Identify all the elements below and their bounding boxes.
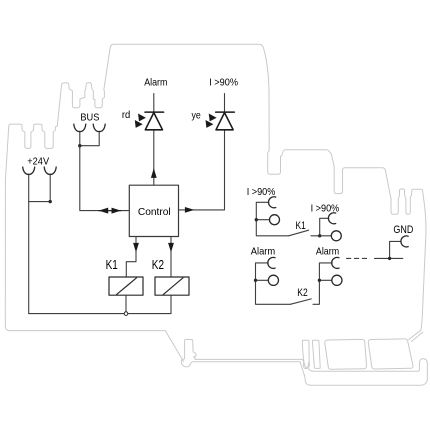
node dot GND bbox=[388, 257, 391, 260]
wire: Control to Alarm LED with up arrow bbox=[153, 130, 155, 185]
svg-text:+24V: +24V bbox=[27, 156, 49, 167]
contact group I>90% left: middle branch bbox=[256, 219, 269, 221]
GND wire bbox=[375, 241, 403, 258]
terminal clamp: +24V right bbox=[44, 167, 56, 174]
frame wires bbox=[311, 218, 332, 236]
control box U1 bbox=[129, 185, 178, 236]
contact socket arc bbox=[332, 257, 339, 268]
wire: Control down to K1 with arrow bbox=[126, 237, 136, 278]
svg-text:K2: K2 bbox=[152, 258, 164, 272]
frame wires bbox=[313, 263, 332, 304]
switch blade K1 bbox=[289, 230, 309, 236]
housing foot: rail bottom bar with end hooks bbox=[300, 359, 427, 386]
node dot bbox=[255, 218, 258, 221]
contact socket arc bbox=[268, 257, 275, 268]
node: open circle junction on rail bbox=[124, 312, 128, 316]
housing foot: latch boot bottom left bbox=[165, 331, 302, 367]
relay coil K1 bbox=[109, 277, 143, 295]
wire: BUS left terminal down bbox=[80, 131, 129, 210]
housing foot: rail segment A bbox=[325, 339, 367, 369]
wire: Control to I>90% LED with right arrow bbox=[179, 130, 225, 210]
relay coil K2 bbox=[155, 277, 189, 295]
LED rd: cathode bar bbox=[145, 111, 164, 113]
contact circle bbox=[331, 231, 341, 241]
svg-text:ye: ye bbox=[192, 110, 202, 121]
wire: +24V right terminal drop bbox=[29, 174, 51, 201]
svg-text:Alarm: Alarm bbox=[144, 77, 167, 88]
svg-text:rd: rd bbox=[122, 110, 131, 121]
housing foot: top right tab bbox=[411, 332, 422, 341]
svg-text:Alarm: Alarm bbox=[251, 247, 275, 258]
contact group I>90% left: frame wires bbox=[256, 202, 288, 236]
node dot bbox=[254, 279, 257, 282]
node: +24V join dot bbox=[49, 200, 52, 203]
svg-text:Control: Control bbox=[138, 206, 171, 218]
LED ye (I>90%): wire top bbox=[224, 94, 226, 113]
middle branch bbox=[319, 279, 331, 281]
svg-text:BUS: BUS bbox=[80, 112, 99, 123]
wire: K1 to bottom rail bbox=[125, 295, 127, 312]
middle branch bbox=[256, 279, 269, 281]
dashed continuation wire bbox=[347, 257, 371, 259]
terminal clamp: BUS right bbox=[93, 124, 105, 131]
LED rd (Alarm): wire top bbox=[153, 94, 155, 113]
node: BUS join dot bbox=[78, 144, 81, 147]
frame wires bbox=[256, 263, 291, 304]
housing outline main body bbox=[5, 44, 426, 339]
wire: BUS right terminal drop bbox=[80, 131, 99, 146]
LED ye: triangle bbox=[216, 113, 233, 130]
switch blade K2 bbox=[290, 299, 311, 304]
svg-text:K1: K1 bbox=[106, 258, 118, 272]
terminal clamp: BUS left bbox=[74, 124, 86, 131]
svg-text:K1: K1 bbox=[296, 220, 306, 232]
contact socket arc bbox=[328, 213, 335, 224]
housing foot: thin strip 1 bbox=[302, 340, 309, 367]
wire: +24V left terminal down to bottom rail bbox=[28, 174, 30, 313]
contact circle bbox=[270, 215, 280, 225]
node dot bbox=[318, 234, 321, 237]
svg-text:GND: GND bbox=[393, 224, 413, 236]
terminal clamp: +24V left bbox=[23, 167, 35, 174]
node dot bbox=[318, 279, 321, 282]
contact circle bbox=[268, 275, 278, 285]
LED rd: triangle bbox=[145, 113, 162, 130]
LED ye: cathode bar bbox=[216, 111, 235, 113]
svg-text:I >90%: I >90% bbox=[209, 77, 238, 88]
contact circle bbox=[332, 275, 342, 285]
contact socket arc bbox=[269, 197, 276, 208]
svg-text:Alarm: Alarm bbox=[316, 247, 339, 258]
wire: bottom rail to relay commons bbox=[29, 295, 171, 313]
LED ye: photon arrows bbox=[209, 114, 217, 122]
svg-text:K2: K2 bbox=[297, 287, 307, 299]
GND socket arc bbox=[401, 236, 408, 247]
housing foot: rail segment B bbox=[368, 339, 413, 369]
wire: Control down to K2 with arrow bbox=[170, 237, 172, 278]
housing foot: thin strip 2 bbox=[312, 340, 320, 368]
wire: bidirectional bus arrow into Control bbox=[99, 210, 121, 212]
LED rd: photon arrows bbox=[138, 114, 146, 122]
svg-text:I >90%: I >90% bbox=[247, 187, 276, 198]
